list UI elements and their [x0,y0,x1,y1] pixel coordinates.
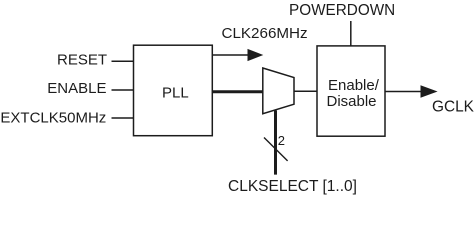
bus width slash [264,138,288,161]
wire ENABLE input [112,89,134,91]
wire RESET input [112,60,134,62]
svg-text:Disable: Disable [327,93,377,110]
svg-text:CLK266MHz: CLK266MHz [222,25,308,42]
svg-text:CLKSELECT [1..0]: CLKSELECT [1..0] [228,178,357,195]
wire mux output to Enable/Disable [294,90,317,92]
svg-text:2: 2 [278,133,285,148]
wire clock bus PLL to mux (thick) [212,90,262,93]
wire GCLK output arrow [385,85,438,97]
svg-text:POWERDOWN: POWERDOWN [289,2,395,19]
mux U1 [263,68,294,114]
svg-text:PLL: PLL [162,85,189,102]
wire CLK266MHz output arrow [212,49,263,61]
svg-text:Enable/: Enable/ [328,77,380,94]
svg-text:ENABLE: ENABLE [47,80,106,97]
block Enable/Disable [317,46,385,136]
wire EXTCLK50MHz input [112,117,134,119]
block PLL [134,45,213,136]
wire CLKSELECT bus (thick vertical) [274,111,277,175]
wire POWERDOWN input [350,21,352,46]
svg-text:EXTCLK50MHz: EXTCLK50MHz [0,110,106,127]
svg-text:RESET: RESET [57,51,107,68]
svg-text:GCLK: GCLK [432,98,474,115]
